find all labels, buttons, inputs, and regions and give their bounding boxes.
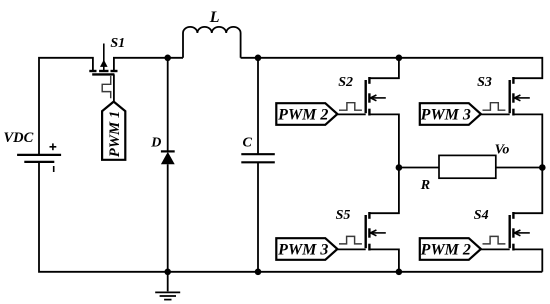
svg-text:PWM 1: PWM 1 bbox=[107, 111, 123, 157]
svg-text:L: L bbox=[209, 9, 220, 26]
svg-text:D: D bbox=[150, 135, 161, 150]
svg-text:S1: S1 bbox=[110, 36, 125, 51]
svg-text:PWM 3: PWM 3 bbox=[277, 242, 328, 259]
svg-text:PWM 2: PWM 2 bbox=[420, 242, 471, 259]
svg-text:S3: S3 bbox=[477, 75, 492, 90]
svg-text:R: R bbox=[420, 178, 430, 193]
svg-text:PWM 2: PWM 2 bbox=[277, 107, 328, 124]
svg-text:Vo: Vo bbox=[495, 142, 510, 157]
svg-text:PWM 3: PWM 3 bbox=[420, 107, 471, 124]
svg-text:VDC: VDC bbox=[4, 130, 34, 146]
svg-text:S2: S2 bbox=[338, 75, 353, 90]
svg-text:C: C bbox=[243, 135, 253, 150]
svg-text:S4: S4 bbox=[474, 208, 489, 223]
svg-text:S5: S5 bbox=[336, 208, 351, 223]
